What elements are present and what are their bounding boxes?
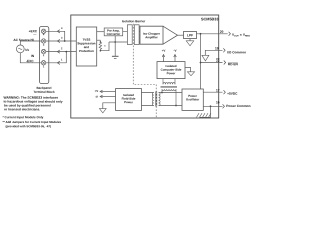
wire terminal 17 +5VDC <box>203 91 222 93</box>
common rail <box>109 41 127 43</box>
junction dot Vout node <box>200 33 202 35</box>
junction dot power common node <box>210 105 212 107</box>
ground field common <box>112 55 119 57</box>
svg-text:Isolation Barrier: Isolation Barrier <box>122 19 146 23</box>
svg-text:or licensed electricians.: or licensed electricians. <box>4 107 40 111</box>
svg-text:Power: Power <box>124 100 134 104</box>
svg-text:* Current Input Models Only: * Current Input Models Only <box>2 115 43 119</box>
isolation transformer secondary rect <box>134 25 139 45</box>
wire row4 -EXC / AC LO <box>20 52 66 63</box>
wire pre-amp bottom to rail <box>114 36 116 42</box>
isolated field-side power block <box>116 89 142 111</box>
svg-text:17: 17 <box>216 88 220 92</box>
junction dot resistor bottom <box>100 50 102 52</box>
svg-text:19: 19 <box>215 46 219 50</box>
wire TVSS to pre-amp <box>97 31 105 33</box>
svg-text:(provided with SCM5B33-36, -47: (provided with SCM5B33-36, -47) <box>5 124 51 128</box>
svg-text:Power Common: Power Common <box>226 104 250 108</box>
arrow row1 <box>57 30 60 33</box>
+V arrow field side <box>100 91 115 93</box>
terminal circle 1 <box>41 61 45 65</box>
wire rail to field common ground <box>114 42 116 56</box>
svg-text:Terminal Block: Terminal Block <box>33 90 55 94</box>
svg-text:SCM5B33: SCM5B33 <box>201 17 219 21</box>
wire RD EN vertical <box>200 34 202 89</box>
wire row2 AC Source HI <box>20 41 76 45</box>
svg-text:I/O Common: I/O Common <box>227 50 246 54</box>
bracket terminal 20 <box>229 32 231 36</box>
bracket terminal 17 <box>224 90 226 94</box>
iso-chopper amplifier <box>140 26 178 44</box>
ground field power <box>99 109 106 113</box>
power oscillator block <box>182 89 203 110</box>
resistor R shunt <box>99 40 102 51</box>
module outline SCM5B33 <box>71 15 219 118</box>
-V arrow field side <box>100 96 115 98</box>
svg-text:Oscillator: Oscillator <box>186 97 200 101</box>
wire pre-amp to isolation transformer <box>123 32 140 42</box>
svg-text:16: 16 <box>216 100 220 104</box>
junction dot RD EN node <box>200 62 202 64</box>
svg-text:RD EN: RD EN <box>228 62 239 66</box>
chassis ground hatching <box>197 113 212 117</box>
junction dot resistor top <box>100 41 102 43</box>
wire TVSS to shunt resistor <box>97 39 101 41</box>
wire row3 IN <box>46 51 77 53</box>
wires field power to transformer <box>142 93 154 106</box>
svg-text:+V: +V <box>162 49 166 53</box>
svg-text:Protection: Protection <box>79 49 94 53</box>
wire terminal 16 power common <box>203 105 222 107</box>
power transformer computer-side winding <box>161 79 178 106</box>
terminal circle 3 <box>41 39 45 43</box>
wire terminal 22 RD EN <box>201 62 223 64</box>
backpanel terminal block <box>40 27 49 84</box>
junction dot rail <box>114 41 116 43</box>
arrow row3 <box>57 50 60 53</box>
AC source Vs <box>16 45 24 53</box>
svg-text:+V: +V <box>95 89 99 93</box>
svg-text:20: 20 <box>220 30 224 34</box>
svg-text:AC Source HI: AC Source HI <box>13 38 33 42</box>
svg-text:Power: Power <box>167 71 177 75</box>
terminal circle 2 <box>41 49 45 53</box>
svg-text:Vs: Vs <box>25 48 29 52</box>
terminal circle 4 <box>41 29 45 33</box>
ground under LPF <box>189 39 191 41</box>
main power transformer <box>152 92 160 107</box>
svg-text:22: 22 <box>216 59 220 63</box>
+V arrow computer side <box>163 55 165 62</box>
svg-text:-V: -V <box>95 95 98 99</box>
wire resistor bottom jog up to common rail <box>100 42 109 51</box>
isolated computer-side power block <box>157 62 185 79</box>
ground I/O common <box>202 55 209 61</box>
svg-text:-V: -V <box>174 49 177 53</box>
-V arrow computer side <box>174 55 176 62</box>
svg-text:Converter: Converter <box>107 32 122 36</box>
wire row1 +EXC <box>46 31 65 41</box>
junction dot row3-row4 jumper <box>65 51 67 53</box>
isolation barrier dashed line <box>133 24 156 118</box>
wire LPF to Vout terminal 20 <box>197 33 228 35</box>
svg-text:LPF: LPF <box>187 33 193 37</box>
svg-text:-EXC: -EXC <box>26 59 34 63</box>
isolation transformer primary rect <box>127 25 132 45</box>
LPF block <box>184 32 197 39</box>
bracket terminal 16 <box>223 104 225 108</box>
bracket terminal 19 <box>223 48 225 52</box>
wire field power common <box>103 103 116 109</box>
junction dot winding left tap <box>161 92 163 94</box>
wire computer power common <box>185 68 191 72</box>
wire to chassis ground <box>200 106 211 117</box>
TVSS suppression and protection block <box>76 27 96 66</box>
arrow row2 <box>57 39 60 42</box>
bracket terminal 22 <box>224 61 226 65</box>
svg-text:Amplifier: Amplifier <box>145 35 158 39</box>
wires transformer to power oscillator <box>159 93 182 106</box>
terminal stubs and brackets <box>223 32 231 109</box>
wire amp to LPF <box>178 34 184 36</box>
pre-amp converter block <box>104 28 123 36</box>
svg-text:+5VDC: +5VDC <box>227 92 238 96</box>
arrow row4 <box>57 61 60 64</box>
junction dot row1-row2 jumper <box>64 40 66 42</box>
wire terminal 19 I/O common <box>205 50 222 55</box>
junction dot winding right tap <box>175 105 177 107</box>
ground computer power common <box>187 72 194 76</box>
